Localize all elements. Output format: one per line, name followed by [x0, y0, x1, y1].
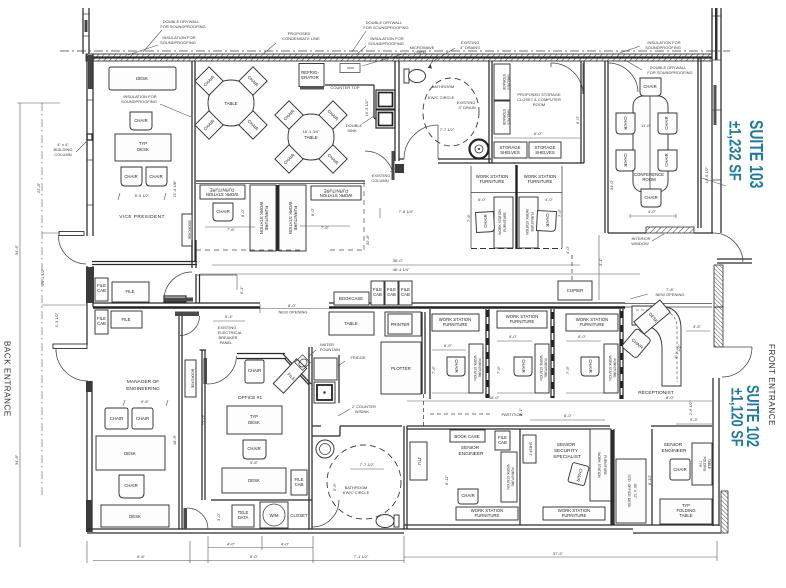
ws102 bay1 label	[432, 314, 479, 331]
hallway file cab upper	[95, 278, 108, 301]
mgr office file cab	[95, 310, 108, 334]
svg-text:FURNITURE: FURNITURE	[480, 179, 505, 184]
ws103 chair A	[213, 203, 233, 221]
bookcase on divider	[334, 292, 369, 305]
svg-text:7'-1 1/2": 7'-1 1/2"	[354, 554, 369, 559]
open area / workstation boundary line	[196, 181, 365, 184]
svg-text:FURNITURE: FURNITURE	[562, 513, 587, 518]
se2 folding table vertical	[692, 443, 712, 485]
back entrance door 2 (swing in)	[56, 349, 88, 381]
reception new opening label	[630, 287, 684, 299]
bathroom 102 door	[312, 500, 339, 527]
svg-text:7'-6": 7'-6"	[565, 365, 570, 374]
FRONT ENTRANCE text	[767, 344, 776, 426]
corridor door arc (open area to hall)	[365, 151, 395, 180]
svg-text:36" X 72": 36" X 72"	[633, 484, 637, 500]
se1 ws panel vertical	[501, 452, 517, 502]
svg-text:MANAGER OF: MANAGER OF	[127, 379, 159, 385]
svg-text:FURNITURE: FURNITURE	[443, 322, 468, 327]
svg-text:22'-8": 22'-8"	[36, 182, 41, 193]
svg-text:VICE PRESIDENT: VICE PRESIDENT	[119, 214, 165, 220]
svg-text:SUITE 102: SUITE 102	[742, 385, 762, 447]
svg-text:8'-0": 8'-0"	[288, 303, 297, 308]
right exterior wall upper (extends above building)	[712, 8, 721, 233]
annotation: insulation (top-right)	[620, 40, 681, 53]
storage shelves vertical 2	[494, 101, 511, 134]
svg-text:DESK: DESK	[124, 451, 136, 456]
svg-text:CAB: CAB	[401, 292, 410, 297]
svg-text:PARTITION: PARTITION	[502, 412, 523, 417]
svg-text:FURNITURE: FURNITURE	[510, 319, 535, 324]
svg-text:CAB: CAB	[498, 440, 507, 445]
svg-text:CHAIR: CHAIR	[110, 416, 123, 421]
BACK ENTRANCE text	[3, 341, 12, 417]
annotation: insulation note VP	[121, 94, 191, 117]
bathroom 102 north wall	[312, 355, 402, 436]
svg-text:FOUNTAIN: FOUNTAIN	[320, 347, 340, 352]
svg-text:SECURITY: SECURITY	[554, 448, 579, 454]
VP office south wall + door	[92, 262, 197, 265]
vestibule walls	[196, 274, 237, 303]
VP office east wall	[192, 61, 195, 261]
svg-text:WORK STATION: WORK STATION	[288, 202, 293, 235]
svg-text:CONDENSATE LINE: CONDENSATE LINE	[282, 36, 320, 41]
table 2 chairs	[275, 101, 347, 173]
svg-text:SHELVES: SHELVES	[507, 74, 511, 90]
svg-text:COLUMN: COLUMN	[371, 178, 388, 183]
svg-text:SHELVES: SHELVES	[535, 150, 555, 155]
reception L desk	[632, 306, 681, 386]
sss ws furniture bottom	[543, 507, 605, 520]
svg-text:SOUNDPROOFING: SOUNDPROOFING	[160, 40, 196, 45]
svg-text:9'-6": 9'-6"	[141, 399, 150, 404]
svg-text:16'-1 3/4": 16'-1 3/4"	[303, 129, 320, 134]
ws103 right chair 1	[476, 212, 495, 233]
svg-text:5'-6": 5'-6"	[332, 482, 337, 491]
office1 east wall	[309, 347, 312, 529]
partition label	[430, 412, 523, 417]
svg-text:8'-0": 8'-0"	[564, 413, 573, 418]
mgr chair boxes	[105, 408, 153, 429]
svg-text:W/M: W/M	[270, 513, 279, 518]
svg-text:ENGINEERING: ENGINEERING	[126, 386, 160, 392]
ws103 panel 2	[279, 185, 306, 251]
conference room east wall	[698, 58, 701, 228]
svg-text:32'-8": 32'-8"	[365, 234, 370, 245]
storage room west wall	[489, 61, 492, 163]
se1 file cab	[495, 431, 510, 450]
svg-text:DESK: DESK	[137, 147, 149, 152]
svg-text:NEW OPENING: NEW OPENING	[656, 292, 685, 297]
partition std/se2	[647, 429, 652, 525]
svg-text:FOR SOUNDPROOFING: FOR SOUNDPROOFING	[363, 25, 408, 30]
svg-text:4'-0": 4'-0"	[565, 245, 570, 254]
svg-text:CHAIR: CHAIR	[644, 195, 657, 200]
svg-text:6'W/C CIRCLE: 6'W/C CIRCLE	[343, 490, 370, 495]
svg-text:4'-0": 4'-0"	[648, 209, 657, 214]
svg-text:CHAIR: CHAIR	[454, 359, 459, 372]
mgr desk	[96, 436, 165, 470]
svg-text:3'-5": 3'-5"	[693, 324, 702, 329]
VP chair 3	[146, 167, 167, 186]
svg-text:CHAIR: CHAIR	[643, 84, 656, 89]
suite divider wall right section	[329, 303, 712, 308]
svg-text:WORK STATION: WORK STATION	[498, 209, 502, 235]
svg-text:34'-6": 34'-6"	[14, 244, 19, 255]
svg-text:FURNITURE: FURNITURE	[511, 467, 515, 487]
office1 chair	[243, 440, 266, 465]
mgr desk 2	[101, 505, 169, 527]
VICE PRESIDENT label	[119, 214, 165, 220]
svg-text:6'-0": 6'-0"	[534, 131, 543, 136]
svg-text:PRINTER: PRINTER	[391, 322, 410, 327]
svg-text:COLUMN: COLUMN	[54, 152, 71, 157]
svg-text:FURNITURE: FURNITURE	[293, 206, 298, 231]
left dimension line outer	[14, 103, 60, 547]
svg-text:16'-3 1/2": 16'-3 1/2"	[364, 99, 369, 116]
VP bookcase (vertical)	[182, 214, 192, 246]
svg-text:8'-0": 8'-0"	[240, 208, 245, 217]
svg-text:FURNITURE: FURNITURE	[264, 206, 269, 231]
ws103 right cluster label 2	[524, 174, 557, 184]
storage shelves horizontal 1	[494, 142, 527, 158]
dim row above lower offices	[407, 395, 712, 424]
svg-text:8'-0": 8'-0"	[578, 334, 587, 339]
annotation: existing 4" drains	[428, 40, 480, 69]
sss ws panel vertical	[590, 429, 611, 501]
svg-text:ERATOR: ERATOR	[301, 75, 319, 80]
svg-text:ROOM: ROOM	[533, 102, 545, 107]
sss chair	[568, 462, 590, 486]
svg-text:BACK ENTRANCE: BACK ENTRANCE	[3, 341, 12, 417]
svg-text:DESK: DESK	[136, 76, 148, 81]
svg-text:CHAIR: CHAIR	[623, 116, 628, 129]
office1 label	[238, 395, 263, 401]
svg-text:SPECIALIST: SPECIALIST	[553, 454, 581, 460]
new opening (8'-0)	[260, 303, 329, 315]
mgr office vertical dim	[172, 414, 206, 445]
closet label	[290, 513, 308, 518]
ws102 bay1 chair + panel	[431, 343, 483, 393]
office1 typ desk	[227, 406, 282, 434]
svg-text:8'-0": 8'-0"	[310, 207, 315, 216]
svg-text:W/SINK: W/SINK	[355, 409, 370, 414]
svg-text:BOOKCASE: BOOKCASE	[188, 220, 192, 240]
reception chair	[621, 328, 651, 359]
svg-text:36'-0": 36'-0"	[393, 258, 404, 263]
conference room door	[608, 63, 638, 92]
svg-text:7'-6": 7'-6"	[227, 227, 236, 232]
svg-text:18'-6": 18'-6"	[172, 434, 177, 445]
copier	[558, 281, 592, 300]
manager label	[123, 379, 168, 406]
svg-text:FOLDING: FOLDING	[703, 457, 707, 472]
svg-text:FOR SOUNDPROOFING: FOR SOUNDPROOFING	[647, 70, 692, 75]
office1 west wall	[200, 350, 207, 500]
svg-text:PLOTTER: PLOTTER	[391, 366, 411, 371]
svg-text:CHAIR: CHAIR	[134, 118, 147, 123]
svg-text:BOOKCASE: BOOKCASE	[339, 296, 363, 301]
ws102 bay3 chair + panel	[565, 334, 618, 393]
top exterior wall (hatched, double drywall)	[60, 51, 730, 61]
svg-text:CAB: CAB	[387, 292, 396, 297]
left dimension line inner	[36, 103, 86, 497]
svg-text:37'-5": 37'-5"	[553, 551, 564, 556]
mgr office east wall + door	[179, 316, 182, 529]
svg-text:CAB: CAB	[373, 292, 382, 297]
proposed storage label	[517, 92, 561, 107]
svg-text:TABLE: TABLE	[707, 459, 711, 470]
dim 7'-8 1/4"	[380, 208, 414, 218]
ws103 right cluster frame	[471, 165, 562, 249]
svg-text:COPIER: COPIER	[567, 288, 583, 293]
svg-text:4" DRAINS: 4" DRAINS	[460, 45, 480, 50]
ws103 label A (inverted)	[200, 185, 245, 199]
svg-text:7'-6": 7'-6"	[557, 208, 562, 217]
plotter room east wall	[422, 312, 425, 426]
svg-text:8'-0": 8'-0"	[509, 334, 518, 339]
receptionist label	[638, 324, 710, 415]
plotter	[381, 342, 421, 394]
water fountain	[295, 342, 340, 370]
svg-text:3'-0": 3'-0"	[216, 512, 221, 521]
senior engineer 1 label	[444, 445, 484, 485]
svg-text:5'-3 1/2": 5'-3 1/2"	[54, 312, 59, 327]
bathroom 103 west wall	[395, 61, 399, 161]
svg-text:CHAIR: CHAIR	[461, 493, 474, 498]
svg-text:46'-4 1/4": 46'-4 1/4"	[393, 267, 410, 272]
svg-text:21'-4 1/8": 21'-4 1/8"	[172, 180, 177, 197]
svg-text:PANEL: PANEL	[220, 340, 234, 345]
file cabs on divider (3x)	[371, 281, 412, 305]
ws102 bay2 label	[497, 311, 547, 328]
svg-text:FRONT ENTRANCE: FRONT ENTRANCE	[767, 344, 776, 426]
svg-text:SINK: SINK	[347, 128, 357, 133]
svg-text:CHAIR: CHAIR	[521, 359, 526, 372]
senior engineer 1 bookcase	[450, 430, 485, 442]
hall dashed line + dim	[565, 235, 603, 300]
svg-text:FOR SOUNDPROOFING: FOR SOUNDPROOFING	[160, 24, 205, 29]
svg-text:TABLE: TABLE	[304, 135, 317, 140]
svg-text:SOUNDPROOFING: SOUNDPROOFING	[368, 41, 404, 46]
svg-text:SHELVES: SHELVES	[500, 150, 520, 155]
VP dims	[118, 180, 177, 200]
office1 file diamond	[273, 359, 306, 393]
right wall hatched strip beside entry	[714, 265, 723, 347]
svg-text:TYP: TYP	[250, 414, 258, 419]
svg-text:2'-6 1/2": 2'-6 1/2"	[688, 400, 693, 415]
mgr office file	[111, 311, 142, 328]
svg-text:11'-0": 11'-0"	[641, 123, 651, 128]
svg-text:7'-7 1/2": 7'-7 1/2"	[360, 462, 375, 467]
VP desk	[109, 67, 176, 90]
svg-text:CHAIR: CHAIR	[216, 209, 229, 214]
svg-text:COUNTER TOP: COUNTER TOP	[331, 85, 360, 90]
svg-text:TYP: TYP	[698, 461, 702, 468]
storage room east wall	[489, 61, 584, 163]
svg-text:CHAIR: CHAIR	[664, 153, 669, 166]
VP typ desk	[115, 134, 171, 161]
mgr office SE door	[184, 508, 209, 529]
svg-text:FURNITURE: FURNITURE	[209, 188, 234, 193]
svg-text:4'-0": 4'-0"	[227, 542, 236, 547]
table 1 chairs	[195, 67, 267, 139]
svg-text:7'-6": 7'-6"	[431, 365, 436, 374]
svg-text:5'-4": 5'-4"	[225, 314, 234, 319]
svg-text:6'-0": 6'-0"	[444, 343, 453, 348]
svg-text:4'-0": 4'-0"	[545, 197, 554, 202]
ws102 bay3 label	[566, 314, 618, 331]
std office desk	[616, 459, 646, 523]
svg-text:CAB: CAB	[295, 482, 304, 487]
existing electrical breaker panel note	[213, 314, 245, 345]
utility row wall	[211, 500, 312, 521]
suite divider wall left section	[93, 296, 260, 308]
svg-text:FILE: FILE	[125, 289, 134, 294]
svg-text:DESK: DESK	[248, 420, 260, 425]
VP chair 1	[130, 112, 152, 130]
svg-text:8'-11": 8'-11"	[444, 474, 449, 484]
door to suite103 hall (swing up)	[164, 272, 193, 302]
svg-text:FURNITURE: FURNITURE	[503, 211, 507, 231]
svg-text:CHAIR: CHAIR	[247, 446, 260, 451]
svg-text:9'-3": 9'-3"	[690, 417, 699, 422]
annotation: insulation (top-left)	[128, 35, 196, 55]
ws102 bay2 chair + panel	[496, 334, 549, 393]
svg-text:14'-6 1/2": 14'-6 1/2"	[704, 166, 709, 183]
svg-text:OFFICE #1: OFFICE #1	[238, 395, 263, 401]
svg-text:FURNITURE: FURNITURE	[475, 513, 500, 518]
svg-text:FURNITURE: FURNITURE	[530, 212, 534, 232]
svg-text:34'-0": 34'-0"	[609, 179, 614, 190]
svg-text:CHAIR: CHAIR	[588, 359, 593, 372]
svg-text:CHAIR: CHAIR	[483, 214, 488, 227]
svg-text:±1,232 SF: ±1,232 SF	[725, 121, 743, 181]
bathroom 102 wc circle	[327, 445, 401, 519]
svg-text:7'-6": 7'-6"	[496, 365, 501, 374]
senior engineer 1 chair	[458, 489, 478, 504]
svg-text:NEW OPENING: NEW OPENING	[279, 310, 308, 315]
svg-text:DESK: DESK	[129, 514, 141, 519]
JTU box	[410, 442, 427, 480]
conference chairs	[616, 78, 677, 207]
office1 chair top	[245, 360, 264, 383]
svg-text:SENIOR: SENIOR	[664, 442, 683, 448]
svg-text:7'-6 1/4": 7'-6 1/4"	[399, 209, 414, 214]
partition sss/std	[611, 429, 620, 525]
svg-text:7'-6": 7'-6"	[466, 213, 471, 222]
printer	[385, 312, 421, 336]
storage shelves vertical 1	[494, 64, 511, 100]
conference room labels/dims	[609, 123, 709, 218]
svg-text:FURNITURE: FURNITURE	[478, 358, 482, 378]
conference interior window	[608, 227, 713, 246]
se2 chair	[670, 459, 690, 480]
svg-text:FURNITURE: FURNITURE	[613, 358, 617, 378]
lower offices west wall	[404, 426, 407, 529]
fridge	[314, 355, 366, 380]
svg-text:SOUNDPROOFING: SOUNDPROOFING	[121, 99, 157, 104]
left exterior wall	[86, 54, 94, 532]
senior engineer 1 ws furniture	[456, 507, 518, 520]
storage shelves horizontal 2	[529, 142, 561, 158]
office1 door arc	[204, 354, 312, 386]
svg-text:FURNITURE: FURNITURE	[544, 358, 548, 378]
svg-text:CAB: CAB	[97, 288, 106, 293]
svg-text:WORK STATION: WORK STATION	[473, 356, 477, 382]
mgr chair	[119, 475, 144, 498]
svg-text:TABLE: TABLE	[679, 513, 692, 518]
svg-text:CHAIR: CHAIR	[124, 483, 137, 488]
bathroom 103 w/c circle (dashed)	[423, 78, 479, 146]
svg-text:WORK STATION: WORK STATION	[506, 465, 510, 491]
svg-text:FURNITURE: FURNITURE	[603, 455, 607, 475]
ws103 right cluster label 1	[476, 174, 509, 184]
svg-text:SENIOR: SENIOR	[557, 442, 576, 448]
svg-text:DESK: DESK	[248, 478, 260, 483]
svg-text:FURNITURE: FURNITURE	[528, 179, 553, 184]
table below divider	[329, 312, 374, 335]
VP chair 2	[121, 167, 142, 186]
storage room dim	[494, 115, 580, 138]
svg-text:34'-8": 34'-8"	[14, 454, 19, 465]
svg-text:OVEN: OVEN	[414, 50, 425, 55]
svg-text:CHAIR: CHAIR	[149, 174, 162, 179]
svg-text:CHAIR: CHAIR	[248, 368, 261, 373]
annotation: double drywall (right)	[625, 60, 693, 75]
svg-text:TYP: TYP	[139, 141, 147, 146]
annotation: insulation (top-mid)	[356, 36, 404, 55]
svg-text:3'-1": 3'-1"	[598, 257, 603, 266]
svg-text:BATHROOM: BATHROOM	[432, 84, 455, 89]
SUITE 103 blue label	[702, 120, 766, 188]
svg-text:WORK STATION: WORK STATION	[259, 202, 264, 235]
svg-text:SOUNDPROOFING: SOUNDPROOFING	[645, 45, 681, 50]
storage room door (top right)	[551, 63, 583, 94]
svg-text:5'-6": 5'-6"	[250, 460, 259, 465]
washer W/M	[260, 502, 288, 528]
svg-text:TABLE: TABLE	[344, 321, 357, 326]
existing column + label	[371, 164, 404, 183]
svg-text:FILE: FILE	[121, 317, 130, 322]
bathroom 102 toilet	[376, 515, 399, 528]
mid dim lines 36'-0 / 46'-4	[200, 258, 640, 294]
ws103 right panel 1	[494, 197, 513, 248]
conference room west wall	[605, 61, 608, 233]
partition wall se1/sss	[519, 429, 521, 525]
svg-text:7'-7 1/2": 7'-7 1/2"	[440, 127, 455, 132]
svg-text:BOOK CASE: BOOK CASE	[454, 434, 479, 439]
tele data	[232, 505, 254, 527]
svg-text:FURNITURE: FURNITURE	[580, 322, 605, 327]
bottom dims	[87, 536, 717, 563]
svg-text:STORAGE: STORAGE	[502, 109, 506, 126]
bathroom 102 sink	[316, 440, 334, 458]
ws103 right dims	[466, 197, 562, 222]
refrigerator	[299, 64, 324, 90]
ws103 left cluster center wall	[277, 185, 279, 251]
svg-text:CHAIR: CHAIR	[673, 467, 686, 472]
ws103 right panel 2	[519, 197, 538, 248]
svg-text:18'-0": 18'-0"	[489, 395, 500, 400]
annotation: double drywall (top-mid)	[352, 20, 409, 52]
svg-text:BOOKCASE: BOOKCASE	[191, 369, 195, 389]
svg-text:TABLE: TABLE	[224, 101, 237, 106]
office1 desk 2	[222, 468, 286, 493]
svg-text:SUITE 103: SUITE 103	[746, 120, 766, 188]
svg-text:FRIDGE: FRIDGE	[350, 355, 365, 360]
annotation: double drywall (top-left)	[143, 19, 206, 52]
